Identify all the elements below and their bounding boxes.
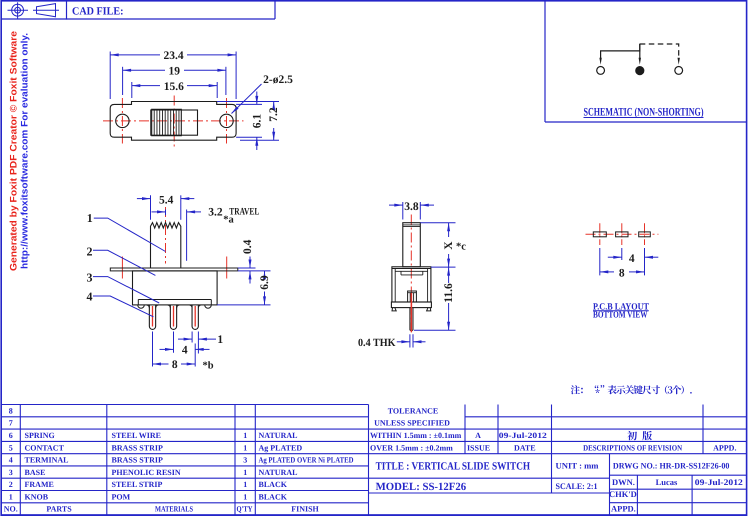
svg-text:WITHIN 1.5mm : ±0.1mm: WITHIN 1.5mm : ±0.1mm <box>370 431 462 440</box>
dimension 0.4 THK <box>358 334 426 349</box>
svg-text:BOTTOM VIEW: BOTTOM VIEW <box>593 311 648 321</box>
dimension 0.4 <box>238 239 271 283</box>
schematic: terminal 1 circle <box>597 67 605 75</box>
svg-text:3: 3 <box>87 271 93 285</box>
front view: body <box>133 271 218 305</box>
svg-text:1: 1 <box>243 468 247 477</box>
svg-text:0.4 THK: 0.4 THK <box>358 337 396 349</box>
svg-text:2: 2 <box>87 244 93 258</box>
svg-text:Ag PLATED OVER Ni PLATED: Ag PLATED OVER Ni PLATED <box>259 456 354 465</box>
svg-text:DATE: DATE <box>514 443 536 452</box>
svg-text:3: 3 <box>9 468 13 477</box>
title row <box>376 460 730 472</box>
svg-text:4: 4 <box>87 289 93 303</box>
part label 2 leader <box>87 244 156 275</box>
pcb: centerlines <box>586 223 659 245</box>
svg-text:UNIT : mm: UNIT : mm <box>556 461 599 471</box>
front view: mounting flange (frame tabs) <box>110 268 238 271</box>
svg-text:8: 8 <box>619 267 625 279</box>
svg-text:BRASS STRIP: BRASS STRIP <box>112 456 163 465</box>
dimension 3.2 TRAVEL *a <box>152 206 260 260</box>
top view: knob serrations <box>152 109 182 135</box>
svg-text:1: 1 <box>243 492 247 501</box>
svg-text:FINISH: FINISH <box>291 505 319 514</box>
schematic box <box>545 1 747 122</box>
svg-text:6.1: 6.1 <box>251 114 263 129</box>
svg-text:11.6: 11.6 <box>443 283 455 303</box>
dimension 23.4 <box>110 50 236 99</box>
svg-text:15.6: 15.6 <box>164 81 184 93</box>
svg-text:5: 5 <box>9 443 13 452</box>
front view: pin centerlines <box>153 306 196 327</box>
svg-text:09-Jul-2012: 09-Jul-2012 <box>695 477 743 487</box>
svg-text:0.4: 0.4 <box>242 239 254 254</box>
svg-text:1: 1 <box>87 211 93 225</box>
svg-text:CONTACT: CONTACT <box>25 443 65 452</box>
side view: terminal pin <box>410 293 413 332</box>
part label 1 leader <box>87 211 166 251</box>
svg-text:MATERIALS: MATERIALS <box>155 505 193 514</box>
svg-text:Generated by Foxit PDF Creator: Generated by Foxit PDF Creator © Foxit S… <box>9 31 20 271</box>
dimension 6.9 <box>217 271 271 305</box>
svg-text:Lucas: Lucas <box>656 477 678 487</box>
top view: left mounting hole <box>116 114 129 127</box>
parts list rows <box>4 406 354 513</box>
svg-text:APPD.: APPD. <box>611 503 636 513</box>
svg-text:FRAME: FRAME <box>25 480 54 489</box>
svg-text:TOLERANCE: TOLERANCE <box>388 406 439 415</box>
sign-off rows <box>609 477 743 514</box>
leader 2-ø2.5 <box>232 74 294 114</box>
svg-text:1: 1 <box>217 334 223 346</box>
svg-text:2-ø2.5: 2-ø2.5 <box>263 74 293 86</box>
svg-text:4: 4 <box>629 253 635 265</box>
svg-text:1: 1 <box>243 480 247 489</box>
schematic: throw wire (dashed) <box>640 44 680 65</box>
svg-text:2: 2 <box>9 480 13 489</box>
svg-text:Ag PLATED: Ag PLATED <box>259 443 303 452</box>
dimension 19 <box>123 66 226 95</box>
side view: knob <box>403 223 421 267</box>
projection symbol: truncated cone <box>33 4 59 17</box>
svg-text:BLACK: BLACK <box>259 480 288 489</box>
schematic title <box>584 106 704 118</box>
pcb dimension 4 <box>608 248 659 275</box>
dimension 3.8 <box>389 201 434 220</box>
svg-text:*c: *c <box>456 242 466 253</box>
svg-text:NATURAL: NATURAL <box>259 468 298 477</box>
svg-text:3.8: 3.8 <box>404 201 419 213</box>
svg-text:23.4: 23.4 <box>164 50 184 62</box>
svg-text:CAD FILE:: CAD FILE: <box>72 6 124 18</box>
svg-text:A: A <box>475 431 481 440</box>
svg-text:4: 4 <box>182 344 188 356</box>
schematic: terminal 3 circle <box>675 67 683 75</box>
svg-text:PHENOLIC RESIN: PHENOLIC RESIN <box>112 468 181 477</box>
side view: red centerline <box>410 215 412 335</box>
svg-text:7.2: 7.2 <box>268 107 280 122</box>
svg-text:Q'TY: Q'TY <box>237 505 253 514</box>
front view: bottom bumps <box>138 305 145 308</box>
part label 3 leader <box>87 271 160 304</box>
svg-text:APPD.: APPD. <box>713 443 736 452</box>
schematic: common terminal (filled) <box>636 67 644 75</box>
svg-text:SPRING: SPRING <box>25 431 55 440</box>
svg-text:ISSUE: ISSUE <box>467 443 490 452</box>
pcb title <box>593 302 650 320</box>
svg-text:6.9: 6.9 <box>259 275 271 290</box>
dimension 1 (pin width) <box>178 332 223 354</box>
top view: centerlines <box>103 96 244 147</box>
svg-text:BLACK: BLACK <box>259 492 288 501</box>
svg-text:1: 1 <box>9 492 13 501</box>
svg-text:DRWG NO.: HR-DR-SS12F26-00: DRWG NO.: HR-DR-SS12F26-00 <box>613 460 730 470</box>
svg-text:19: 19 <box>169 66 181 78</box>
svg-text:KNOB: KNOB <box>25 492 49 501</box>
header box <box>1 1 275 20</box>
top view: plate outline <box>110 102 236 141</box>
svg-text:DESCRIPTIONS OF REVISION: DESCRIPTIONS OF REVISION <box>583 443 682 452</box>
svg-text:3.2: 3.2 <box>208 206 223 218</box>
svg-text:NO.: NO. <box>4 505 18 514</box>
svg-text:5.4: 5.4 <box>159 194 174 206</box>
svg-text:POM: POM <box>112 492 131 501</box>
dimension 7.2 <box>217 102 280 141</box>
side view: base slab <box>391 302 431 308</box>
svg-text:STEEL WIRE: STEEL WIRE <box>112 431 161 440</box>
top view: slot window <box>151 110 198 135</box>
pcb dimension 8 <box>600 248 645 279</box>
tolerance block text <box>370 406 462 452</box>
svg-text:09-Jul-2012: 09-Jul-2012 <box>499 431 547 440</box>
front view: base parting line <box>138 300 211 305</box>
svg-text:6: 6 <box>9 431 13 440</box>
note: key dimension remark (Chinese) <box>571 385 692 394</box>
side view: feet <box>392 308 396 311</box>
dimension 15.6 <box>132 81 217 98</box>
svg-text:MODEL: SS-12F26: MODEL: SS-12F26 <box>376 481 467 493</box>
title block grid <box>369 405 747 516</box>
dimension 4 (pin pitch) <box>160 332 210 367</box>
svg-text:TITLE : VERTICAL SLIDE SWITC: TITLE : VERTICAL SLIDE SWITCH <box>376 461 531 473</box>
svg-text:OVER 1.5mm : ±0.2mm: OVER 1.5mm : ±0.2mm <box>370 443 453 452</box>
svg-text:1: 1 <box>243 431 247 440</box>
model row <box>376 481 598 493</box>
part label 4 leader <box>87 289 154 317</box>
svg-text:4: 4 <box>9 456 13 465</box>
svg-text:1: 1 <box>243 443 247 452</box>
front view: knob with serrated top <box>151 223 181 268</box>
revision row <box>467 431 737 452</box>
svg-text:BRASS STRIP: BRASS STRIP <box>112 443 163 452</box>
svg-text:SCHEMATIC (NON-SHORTING): SCHEMATIC (NON-SHORTING) <box>584 106 704 118</box>
top view: right mounting hole <box>220 114 233 127</box>
svg-text:SCALE: 2:1: SCALE: 2:1 <box>556 481 598 491</box>
side view: center pedestal <box>408 291 417 302</box>
svg-text:BASE: BASE <box>25 468 46 477</box>
svg-text:UNLESS SPECIFIED: UNLESS SPECIFIED <box>374 419 450 428</box>
svg-text:TRAVEL: TRAVEL <box>229 206 259 217</box>
svg-text:*a: *a <box>223 214 234 225</box>
svg-text:7: 7 <box>9 419 13 428</box>
projection symbol: circle <box>8 2 29 19</box>
dimension 6.1 <box>236 92 263 151</box>
svg-text:X: X <box>443 241 455 250</box>
svg-text:8: 8 <box>172 359 178 371</box>
parts list table grid <box>1 405 368 516</box>
svg-text:*b: *b <box>203 360 214 371</box>
svg-text:STEEL STRIP: STEEL STRIP <box>112 480 163 489</box>
svg-text:CHK'D: CHK'D <box>609 489 637 499</box>
dimension 8 *b <box>153 332 214 372</box>
schematic: common wire (solid) <box>599 44 641 65</box>
svg-text:PARTS: PARTS <box>46 505 72 514</box>
dimension X *c <box>420 223 466 267</box>
svg-text:3: 3 <box>243 456 247 465</box>
front view: red centerlines <box>122 207 226 281</box>
pcb: pad slots <box>593 232 650 237</box>
dimension 11.6 <box>414 267 456 330</box>
svg-text:http://www.foxitsoftware.com: http://www.foxitsoftware.com For evaluat… <box>20 33 31 269</box>
svg-text:8: 8 <box>9 406 13 415</box>
side view: body <box>392 267 431 302</box>
dimension 5.4 <box>137 194 194 220</box>
svg-text:TERMINAL: TERMINAL <box>25 456 69 465</box>
svg-text:NATURAL: NATURAL <box>259 431 298 440</box>
svg-text:DWN.: DWN. <box>612 477 635 487</box>
front view: terminals (3 pins) <box>146 305 201 330</box>
